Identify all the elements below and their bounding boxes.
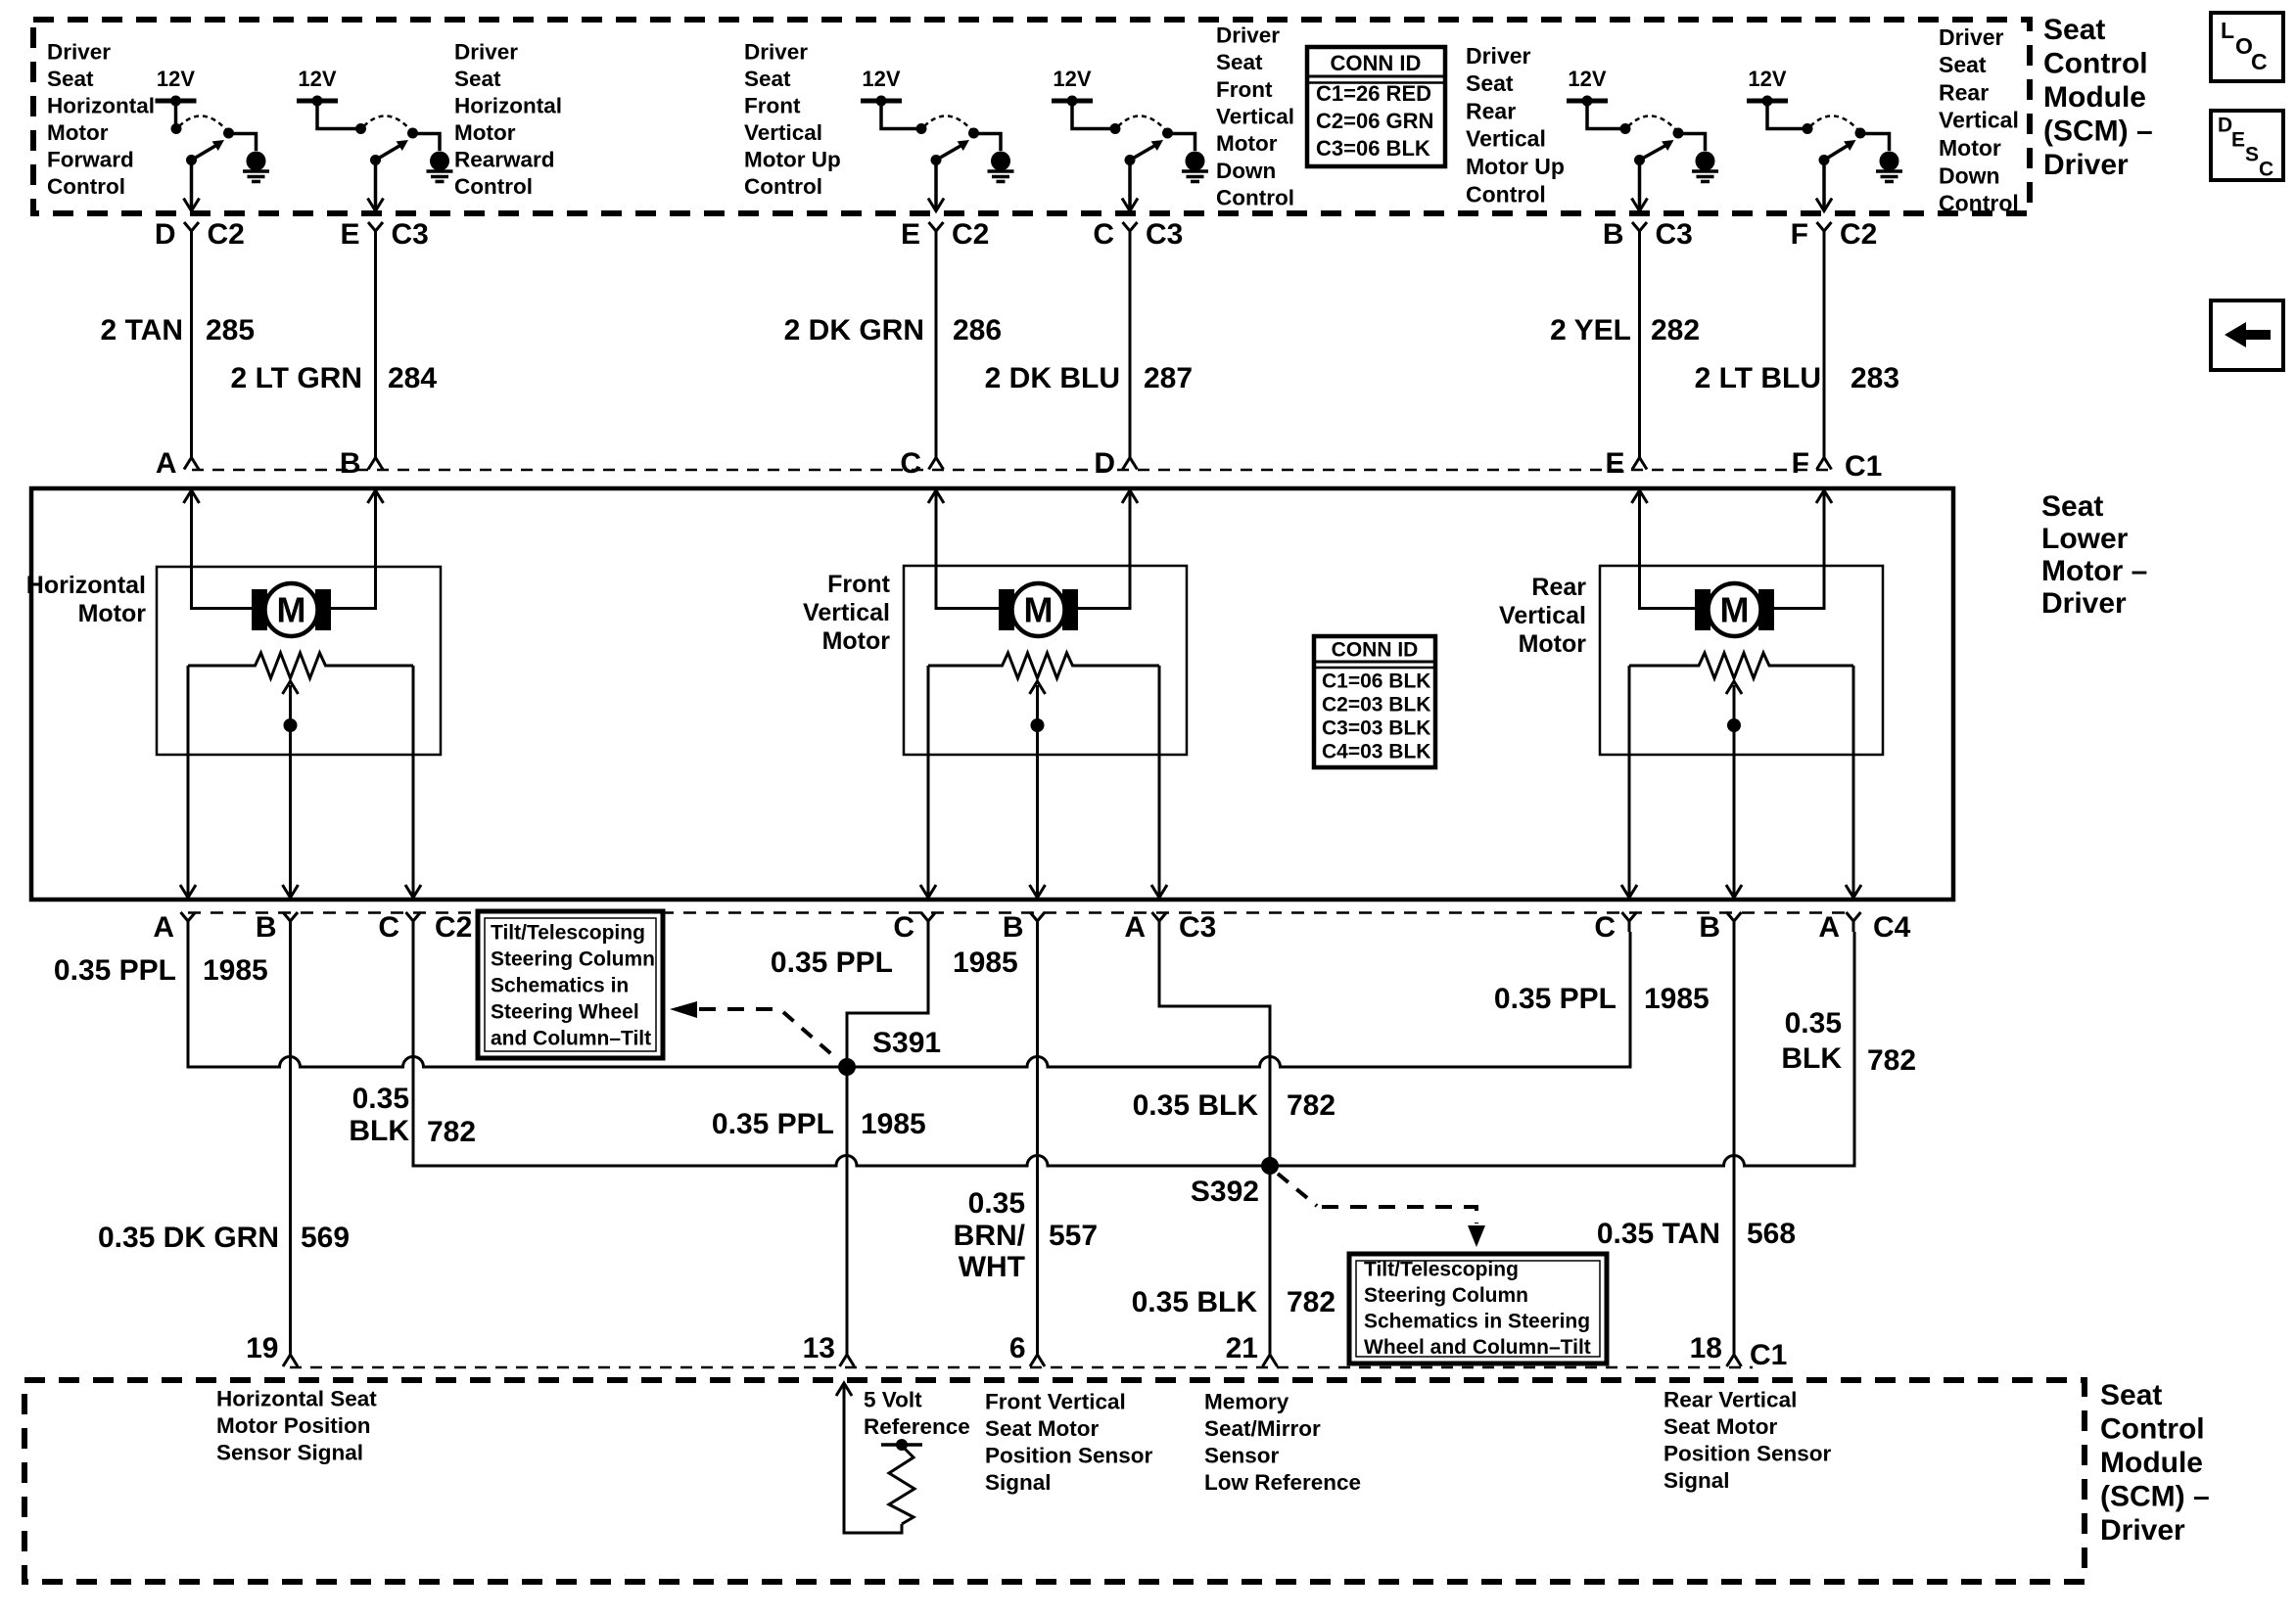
svg-text:CONN ID: CONN ID: [1331, 51, 1422, 75]
wire E/C3 to seat lower motor: [374, 242, 377, 456]
splice S391: [838, 1058, 856, 1076]
ground (driver seat rear vertical motor down control): [1880, 152, 1899, 171]
svg-text:2 YEL: 2 YEL: [1550, 314, 1631, 346]
svg-text:Motor: Motor: [78, 600, 147, 627]
svg-text:A: A: [1124, 911, 1146, 944]
svg-text:Down: Down: [1216, 159, 1276, 183]
svg-text:0.35 PPL: 0.35 PPL: [54, 954, 176, 987]
switch blade: [1640, 146, 1665, 161]
switch blade: [1824, 146, 1848, 161]
connector pin B (C1 seat lower motor): [340, 447, 383, 480]
svg-text:Motor: Motor: [1519, 630, 1587, 658]
wire 12V feed to switch pivot: [1767, 101, 1807, 129]
svg-text:and Column–Tilt: and Column–Tilt: [491, 1027, 651, 1049]
connector pin 18 (SCM C1): [1690, 1332, 1742, 1366]
wire switch output: [1128, 161, 1132, 210]
svg-text:Motor Up: Motor Up: [744, 147, 841, 171]
switch travel arc: [1810, 115, 1858, 130]
svg-text:C2=06 GRN: C2=06 GRN: [1316, 109, 1433, 133]
connector pin E / C3: [340, 218, 428, 251]
svg-text:Position Sensor: Position Sensor: [1663, 1441, 1832, 1465]
wire 0.35 BRN/WHT 557 to pin 6: [1036, 932, 1039, 1353]
label: Seat Lower Motor - Driver: [2041, 490, 2147, 620]
svg-text:Sensor: Sensor: [1204, 1443, 1280, 1467]
svg-text:19: 19: [246, 1332, 278, 1364]
wire 782 BLK bus (S392 run): [413, 932, 1854, 1166]
svg-text:Control: Control: [744, 174, 822, 199]
svg-text:C: C: [2251, 49, 2268, 74]
connector pin A (motor bottom): [1124, 885, 1167, 944]
svg-text:Control: Control: [454, 174, 533, 199]
Seat Lower Motor - Driver box: [31, 488, 1953, 900]
svg-text:Driver: Driver: [744, 39, 808, 64]
svg-text:Seat: Seat: [2100, 1379, 2162, 1411]
horizontal motor assembly: [157, 490, 441, 898]
wire front vertical pot wiper: [1036, 685, 1039, 898]
svg-text:C: C: [2259, 158, 2273, 180]
svg-text:0.35: 0.35: [352, 1083, 409, 1115]
wire rear vertical pot right lead: [1852, 666, 1855, 898]
wire front vertical motor - lead: [1078, 490, 1130, 609]
wire contact to ground: [229, 134, 257, 152]
potentiometer (rear vertical position sensor): [1629, 653, 1853, 678]
svg-text:Control: Control: [1216, 186, 1294, 210]
label: Driver Seat Front Vertical Motor Up Control: [744, 39, 841, 199]
svg-text:C4=03 BLK: C4=03 BLK: [1322, 740, 1430, 762]
wire horizontal pot right lead: [412, 666, 415, 898]
svg-text:C: C: [900, 447, 921, 480]
svg-text:Motor Up: Motor Up: [1466, 154, 1565, 179]
connector row dashed line (C1 top of motor box): [192, 469, 1831, 472]
wire 12V feed to switch pivot: [881, 101, 921, 129]
connector pin 19 (SCM C1): [246, 1332, 298, 1366]
svg-text:Seat Motor: Seat Motor: [1663, 1414, 1778, 1439]
ground (driver seat horizontal motor forward control): [247, 152, 266, 171]
svg-text:Seat: Seat: [2041, 490, 2103, 523]
motor M (front vertical): [999, 589, 1014, 630]
svg-text:Control: Control: [1466, 181, 1546, 207]
connector pin C (C1 seat lower motor): [900, 447, 943, 480]
svg-text:Tilt/Telescoping: Tilt/Telescoping: [1364, 1258, 1519, 1280]
svg-text:Motor –: Motor –: [2041, 555, 2147, 587]
svg-text:Vertical: Vertical: [803, 599, 890, 626]
potentiometer (front vertical position sensor): [928, 653, 1159, 678]
connector pin 13 (SCM C1): [803, 1332, 855, 1366]
svg-text:C1=06 BLK: C1=06 BLK: [1322, 670, 1430, 692]
svg-text:Front: Front: [744, 93, 801, 117]
connector pin 21 (SCM C1): [1226, 1332, 1278, 1366]
svg-text:12V: 12V: [157, 67, 195, 91]
wire switch output: [374, 161, 378, 210]
svg-text:Memory: Memory: [1204, 1389, 1289, 1413]
svg-text:2 LT BLU: 2 LT BLU: [1695, 362, 1821, 394]
switch blade: [936, 146, 961, 161]
connector pin B (motor bottom): [1699, 885, 1742, 944]
rear vertical motor assembly: [1600, 490, 1883, 898]
connector pin D (C1 seat lower motor): [1094, 447, 1137, 480]
svg-text:782: 782: [1287, 1286, 1335, 1318]
svg-text:Vertical: Vertical: [744, 120, 822, 145]
connector pin C (motor bottom): [893, 885, 936, 944]
svg-text:Motor Position: Motor Position: [216, 1413, 370, 1438]
connector row dashed line (motor box bottom): [188, 911, 1853, 914]
wire 0.35 DK GRN 569 to pin 19: [289, 932, 292, 1353]
label: Rear Vertical Motor: [1499, 574, 1586, 658]
switch travel arc: [364, 115, 411, 130]
back-arrow navigation box: [2211, 300, 2283, 370]
svg-text:Motor: Motor: [822, 627, 891, 655]
svg-text:Front: Front: [1216, 77, 1273, 102]
svg-text:Vertical: Vertical: [1499, 602, 1586, 629]
CONN ID table (SCM connectors): [1307, 47, 1445, 166]
ground (driver seat front vertical motor up control): [991, 152, 1010, 171]
svg-text:0.35: 0.35: [968, 1187, 1025, 1220]
wire switch output: [934, 161, 938, 210]
svg-text:Module: Module: [2100, 1447, 2203, 1479]
svg-text:13: 13: [803, 1332, 835, 1364]
svg-text:A: A: [153, 911, 174, 944]
ground (driver seat horizontal motor rearward control): [430, 152, 449, 171]
svg-text:BLK: BLK: [1781, 1042, 1842, 1075]
svg-text:Control: Control: [47, 174, 125, 199]
svg-text:18: 18: [1690, 1332, 1722, 1364]
wire contact to ground: [1860, 134, 1890, 152]
svg-text:Seat: Seat: [47, 67, 94, 91]
wire rear vertical motor + lead: [1640, 490, 1696, 609]
svg-text:1985: 1985: [953, 947, 1018, 979]
svg-text:C3: C3: [392, 218, 429, 251]
wire front vertical motor + lead: [936, 490, 999, 609]
svg-text:Reference: Reference: [864, 1414, 970, 1439]
svg-text:Driver: Driver: [1466, 43, 1531, 69]
label: Memory Seat/Mirror Sensor Low Reference: [1204, 1389, 1361, 1495]
switch travel arc: [924, 115, 972, 130]
svg-text:569: 569: [301, 1222, 350, 1254]
svg-text:BLK: BLK: [349, 1115, 409, 1147]
svg-text:Vertical: Vertical: [1466, 126, 1546, 152]
svg-text:C: C: [378, 911, 399, 944]
svg-text:21: 21: [1226, 1332, 1258, 1364]
svg-text:Down: Down: [1939, 162, 2000, 188]
LOC reference box: [2211, 13, 2283, 81]
svg-text:Control: Control: [2100, 1412, 2205, 1445]
svg-text:C1: C1: [1750, 1339, 1787, 1371]
wire switch output: [1638, 161, 1642, 210]
svg-text:557: 557: [1049, 1220, 1098, 1252]
svg-text:Forward: Forward: [47, 147, 134, 171]
svg-text:782: 782: [427, 1116, 476, 1148]
potentiometer (horizontal position sensor): [188, 653, 413, 678]
wire horizontal pot left lead: [187, 666, 190, 898]
svg-text:S: S: [2245, 143, 2259, 165]
wire horizontal pot wiper: [289, 685, 292, 898]
connector pin A (motor bottom): [1818, 885, 1861, 944]
wire contact to ground: [974, 134, 1002, 152]
svg-text:Horizontal: Horizontal: [47, 93, 155, 117]
wire front vertical pot right lead: [1158, 666, 1161, 898]
svg-text:A: A: [156, 447, 177, 480]
svg-text:284: 284: [388, 362, 437, 394]
label: Seat Control Module (SCM) Driver (top right): [2043, 14, 2153, 181]
svg-text:Rear: Rear: [1531, 574, 1586, 601]
switch travel arc: [1628, 115, 1676, 130]
label: Driver Seat Rear Vertical Motor Up Control: [1466, 43, 1565, 208]
svg-text:12V: 12V: [298, 67, 336, 91]
svg-text:1985: 1985: [861, 1108, 926, 1140]
wire 0.35 BLK 782 to pin 21: [1269, 1166, 1272, 1353]
svg-text:L: L: [2221, 18, 2234, 43]
svg-text:Driver: Driver: [2100, 1514, 2185, 1547]
svg-text:Motor: Motor: [454, 120, 516, 145]
wire rear vertical motor - lead: [1774, 490, 1824, 609]
svg-text:S391: S391: [872, 1027, 941, 1059]
svg-text:2 DK GRN: 2 DK GRN: [784, 314, 924, 346]
svg-text:C2: C2: [208, 218, 245, 251]
switch: driver seat front vertical motor down control: [1052, 67, 1208, 210]
svg-text:C3=06 BLK: C3=06 BLK: [1316, 136, 1430, 161]
svg-text:0.35 PPL: 0.35 PPL: [1494, 983, 1617, 1015]
svg-text:0.35 BLK: 0.35 BLK: [1132, 1286, 1258, 1318]
wire switch output: [1822, 161, 1826, 210]
svg-text:F: F: [1791, 218, 1808, 251]
motor M (horizontal): [252, 589, 267, 630]
svg-text:Driver: Driver: [2043, 149, 2129, 181]
svg-text:12V: 12V: [1053, 67, 1091, 91]
svg-text:BRN/: BRN/: [954, 1220, 1026, 1252]
svg-text:Seat/Mirror: Seat/Mirror: [1204, 1416, 1321, 1441]
label: Driver Seat Front Vertical Motor Down Control: [1216, 23, 1294, 209]
svg-text:Seat: Seat: [1466, 70, 1514, 96]
CONN ID table (seat lower motor connectors): [1314, 636, 1435, 767]
label: Horizontal Seat Motor Position Sensor Signal: [216, 1386, 377, 1464]
ground (driver seat rear vertical motor up control): [1696, 152, 1715, 171]
svg-text:(SCM) –: (SCM) –: [2043, 115, 2153, 147]
switch travel arc: [1118, 115, 1166, 130]
svg-text:0.35 DK GRN: 0.35 DK GRN: [98, 1222, 279, 1254]
svg-text:Seat Motor: Seat Motor: [985, 1416, 1100, 1441]
svg-text:F: F: [1792, 447, 1809, 480]
svg-text:Module: Module: [2043, 81, 2146, 114]
connector pin C (motor bottom): [1594, 885, 1637, 944]
svg-text:Rear: Rear: [1466, 98, 1516, 123]
svg-text:Tilt/Telescoping: Tilt/Telescoping: [491, 921, 645, 944]
svg-text:Horizontal Seat: Horizontal Seat: [216, 1386, 377, 1410]
svg-text:B: B: [1699, 911, 1720, 944]
svg-text:M: M: [1720, 589, 1750, 629]
label: 5 Volt Reference: [864, 1387, 970, 1439]
svg-text:Seat: Seat: [2043, 14, 2105, 46]
svg-text:12V: 12V: [1748, 67, 1786, 91]
svg-text:C2=03 BLK: C2=03 BLK: [1322, 693, 1430, 716]
svg-text:C3: C3: [1656, 218, 1693, 251]
connector pin C (motor bottom): [378, 885, 421, 944]
svg-text:282: 282: [1651, 314, 1700, 346]
Seat Control Module (SCM) Driver - bottom dashed box: [24, 1380, 2085, 1582]
svg-text:D: D: [1094, 447, 1115, 480]
svg-text:Sensor Signal: Sensor Signal: [216, 1440, 363, 1464]
switch travel arc: [179, 115, 227, 130]
Seat Control Module (SCM) Driver - top dashed box: [33, 20, 2030, 213]
svg-text:0.35: 0.35: [1785, 1007, 1842, 1039]
5 Volt reference resistor network: [836, 1383, 922, 1533]
svg-text:Driver: Driver: [1216, 23, 1280, 47]
svg-text:B: B: [1003, 911, 1024, 944]
svg-text:568: 568: [1747, 1218, 1796, 1250]
svg-text:Wheel and Column–Tilt: Wheel and Column–Tilt: [1364, 1336, 1591, 1359]
svg-text:Motor: Motor: [47, 120, 109, 145]
wire 12V feed to switch pivot: [1587, 101, 1625, 129]
svg-text:Lower: Lower: [2041, 523, 2129, 555]
wire motor2 pin C PPL jog to S391: [847, 932, 928, 1067]
svg-text:E: E: [2231, 128, 2245, 151]
svg-text:Horizontal: Horizontal: [454, 93, 562, 117]
svg-text:C3=03 BLK: C3=03 BLK: [1322, 716, 1430, 739]
svg-text:D: D: [2218, 114, 2232, 136]
svg-text:Signal: Signal: [1663, 1468, 1730, 1493]
wire 0.35 TAN 568 to pin 18: [1733, 932, 1736, 1353]
svg-text:C2: C2: [435, 911, 472, 944]
Tilt/Telescoping reference box (S391): [478, 911, 663, 1058]
wire horizontal motor - lead: [331, 490, 376, 609]
svg-text:C2: C2: [1840, 218, 1877, 251]
svg-text:Rear Vertical: Rear Vertical: [1663, 1387, 1797, 1411]
label: Rear Vertical Seat Motor Position Sensor Signal: [1663, 1387, 1832, 1493]
connector pin F (C1 seat lower motor): [1792, 447, 1832, 480]
svg-text:E: E: [340, 218, 359, 251]
svg-text:0.35 TAN: 0.35 TAN: [1597, 1218, 1720, 1250]
svg-text:Driver: Driver: [47, 39, 111, 64]
connector pin F / C2: [1791, 218, 1878, 251]
svg-text:Seat: Seat: [454, 67, 501, 91]
wire horizontal motor + lead: [192, 490, 253, 609]
svg-text:Steering Wheel: Steering Wheel: [491, 1000, 639, 1023]
wire 12V feed to switch pivot: [317, 101, 361, 129]
svg-text:12V: 12V: [1568, 67, 1606, 91]
connector row dashed line (SCM C1): [290, 1366, 1753, 1369]
wire 1985 PPL bus (S391 run): [188, 932, 1630, 1067]
wire 0.35 PPL 1985 to pin 13: [846, 1067, 849, 1353]
svg-text:286: 286: [953, 314, 1002, 346]
switch blade: [1130, 146, 1154, 161]
svg-text:D: D: [155, 218, 176, 251]
svg-text:Schematics in: Schematics in: [491, 974, 629, 996]
wire motor2 pin A BLK jog to S392: [1159, 932, 1270, 1166]
svg-text:S392: S392: [1191, 1176, 1259, 1208]
svg-text:0.35 PPL: 0.35 PPL: [712, 1108, 834, 1140]
svg-text:2 DK BLU: 2 DK BLU: [985, 362, 1120, 394]
svg-text:(SCM) –: (SCM) –: [2100, 1480, 2210, 1512]
svg-text:6: 6: [1009, 1332, 1026, 1364]
svg-text:CONN ID: CONN ID: [1332, 638, 1419, 661]
svg-text:Seat: Seat: [744, 67, 791, 91]
switch: driver seat rear vertical motor up control: [1567, 67, 1718, 210]
splice S392: [1261, 1157, 1279, 1175]
wire contact to ground: [413, 134, 441, 152]
svg-text:1985: 1985: [203, 954, 268, 987]
wire rear vertical pot wiper: [1733, 685, 1736, 898]
front vertical motor assembly: [904, 490, 1187, 898]
switch: driver seat horizontal motor rearward control: [297, 67, 453, 210]
resistor (5V reference): [889, 1446, 914, 1524]
wire B/C3 to seat lower motor: [1638, 242, 1641, 456]
svg-text:E: E: [1605, 447, 1624, 480]
label: Seat Control Module (SCM) Driver (bottom right): [2100, 1379, 2210, 1547]
svg-text:0.35 BLK: 0.35 BLK: [1133, 1089, 1259, 1122]
wire C/C3 to seat lower motor: [1129, 242, 1132, 456]
svg-text:2 TAN: 2 TAN: [101, 314, 183, 346]
ground (driver seat front vertical motor down control): [1186, 152, 1205, 171]
svg-text:Rearward: Rearward: [454, 147, 555, 171]
svg-text:Seat: Seat: [1216, 50, 1263, 74]
switch blade: [376, 146, 400, 161]
svg-text:Steering Column: Steering Column: [491, 947, 655, 970]
svg-text:C1: C1: [1845, 450, 1882, 483]
svg-text:C: C: [1093, 218, 1114, 251]
wire D/C2 to seat lower motor: [190, 242, 193, 456]
svg-text:Horizontal: Horizontal: [26, 572, 146, 599]
svg-text:287: 287: [1144, 362, 1193, 394]
svg-text:Motor: Motor: [1216, 131, 1278, 156]
svg-text:0.35 PPL: 0.35 PPL: [771, 947, 893, 979]
svg-text:Control: Control: [2043, 47, 2148, 79]
svg-text:283: 283: [1851, 362, 1899, 394]
wire E/C2 to seat lower motor: [935, 242, 938, 456]
wire contact to ground: [1168, 134, 1195, 152]
svg-text:WHT: WHT: [959, 1251, 1025, 1283]
svg-text:Seat: Seat: [1939, 52, 1987, 77]
label: Driver Seat Horizontal Motor Rearward Control: [454, 39, 562, 199]
wire front vertical pot left lead: [927, 666, 930, 898]
svg-text:782: 782: [1867, 1044, 1916, 1077]
svg-text:1985: 1985: [1644, 983, 1710, 1015]
label: Front Vertical Motor: [803, 571, 891, 655]
svg-text:Vertical: Vertical: [1939, 108, 2019, 133]
svg-text:Vertical: Vertical: [1216, 105, 1294, 129]
connector pin B (motor bottom): [256, 885, 299, 944]
svg-text:12V: 12V: [862, 67, 900, 91]
svg-text:5 Volt: 5 Volt: [864, 1387, 922, 1411]
svg-text:Driver: Driver: [1939, 24, 2004, 50]
svg-text:C2: C2: [952, 218, 989, 251]
svg-text:M: M: [277, 589, 306, 629]
svg-text:C3: C3: [1146, 218, 1183, 251]
connector pin B / C3: [1603, 218, 1693, 251]
wire contact to ground: [1678, 134, 1706, 152]
switch blade: [192, 146, 216, 161]
switch: driver seat front vertical motor up control: [861, 67, 1014, 210]
connector pin C / C3: [1093, 218, 1183, 251]
svg-text:782: 782: [1287, 1089, 1335, 1122]
motor M (rear vertical): [1695, 589, 1710, 630]
label: Horizontal Motor: [26, 572, 146, 627]
wire 12V feed to switch pivot: [1072, 101, 1115, 129]
connector pin A (motor bottom): [153, 885, 196, 944]
dashed reference arrow to Tilt box (S391): [670, 1001, 837, 1059]
svg-text:Front: Front: [827, 571, 891, 598]
connector pin B (motor bottom): [1003, 885, 1046, 944]
svg-text:M: M: [1024, 589, 1054, 629]
label: Driver Seat Horizontal Motor Forward Control: [47, 39, 155, 199]
svg-text:Driver: Driver: [454, 39, 518, 64]
svg-text:Driver: Driver: [2041, 587, 2127, 620]
svg-text:Position Sensor: Position Sensor: [985, 1443, 1153, 1467]
Tilt/Telescoping reference box (S392): [1349, 1254, 1607, 1363]
DESC reference box: [2211, 111, 2283, 180]
wire 12V feed to switch pivot: [174, 101, 178, 126]
label: Front Vertical Seat Motor Position Sensor Signal: [985, 1389, 1153, 1495]
switch: driver seat rear vertical motor down control: [1747, 67, 1902, 210]
svg-text:B: B: [340, 447, 361, 480]
